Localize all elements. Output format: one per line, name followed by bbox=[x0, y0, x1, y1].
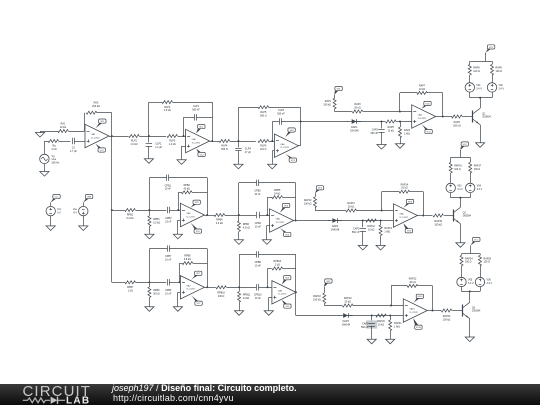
wire bbox=[470, 157, 472, 162]
svg-text:1.1 µF: 1.1 µF bbox=[155, 146, 162, 149]
wire load bottom rail bbox=[470, 97, 492, 99]
net flag VEE on supply bbox=[83, 195, 93, 203]
wire bbox=[239, 183, 257, 216]
svg-text:560 Ω: 560 Ω bbox=[260, 114, 267, 117]
svg-text:2 kΩ: 2 kΩ bbox=[52, 148, 57, 151]
svg-text:1N4148: 1N4148 bbox=[342, 323, 351, 326]
wire bbox=[83, 203, 85, 207]
wire bbox=[461, 266, 463, 277]
svg-text:100 Ω: 100 Ω bbox=[496, 70, 503, 73]
svg-text:1N4148: 1N4148 bbox=[331, 228, 340, 231]
capacitor C2 bbox=[70, 138, 77, 153]
net flag VC9 on OA9 bbox=[282, 300, 291, 308]
wire OA3 output bbox=[298, 145, 300, 147]
wire bbox=[193, 263, 208, 265]
svg-text:100 kΩ: 100 kΩ bbox=[313, 298, 321, 301]
wire OA1 output bbox=[109, 136, 128, 138]
svg-text:430 Ω: 430 Ω bbox=[218, 295, 225, 298]
net flag VD2 on OA2 bbox=[196, 125, 205, 134]
wire bbox=[239, 254, 257, 287]
wire bbox=[268, 269, 272, 288]
resistor RAP19 bbox=[342, 297, 353, 307]
wire load bottom rail bbox=[462, 291, 481, 293]
ground bbox=[40, 170, 49, 176]
svg-text:10 nF: 10 nF bbox=[165, 293, 172, 296]
net flag VD3 threshold row2 bbox=[315, 186, 324, 194]
wire OA3 + to ground bbox=[272, 151, 274, 163]
capacitor CPB4 bbox=[255, 212, 262, 229]
ground bbox=[456, 241, 465, 247]
svg-text:20 kΩ: 20 kΩ bbox=[354, 106, 361, 109]
svg-text:3.4 V: 3.4 V bbox=[476, 87, 482, 90]
svg-text:24 kΩ: 24 kΩ bbox=[274, 193, 281, 196]
ground bbox=[395, 142, 404, 148]
wire OA7 + to ground bbox=[178, 292, 181, 305]
ground bbox=[465, 336, 474, 342]
capacitor CPB10 bbox=[254, 284, 262, 300]
resistor RA2 bbox=[86, 102, 100, 115]
node bbox=[266, 214, 268, 216]
wire load top rail bbox=[470, 61, 492, 63]
svg-text:1 MΩ: 1 MΩ bbox=[394, 325, 400, 328]
svg-text:560 nF: 560 nF bbox=[192, 108, 200, 111]
op-amp OA9 bbox=[272, 281, 296, 304]
node bbox=[390, 305, 392, 307]
svg-text:2N3904: 2N3904 bbox=[472, 310, 481, 313]
node bbox=[459, 197, 461, 199]
wire bbox=[136, 282, 167, 284]
resistor RAP22 bbox=[407, 278, 418, 288]
voltage source Vcc 9V bbox=[46, 206, 62, 215]
svg-text:3.4 V: 3.4 V bbox=[487, 282, 493, 285]
resistor RAP3 bbox=[352, 103, 363, 113]
wire bbox=[97, 113, 112, 137]
capacitor CLP2 bbox=[146, 143, 163, 149]
wire bbox=[296, 315, 340, 317]
capacitor CPB7 bbox=[165, 245, 172, 261]
node bbox=[432, 310, 434, 312]
footer text line 1 bbox=[112, 383, 297, 393]
resistor RAP4 bbox=[399, 127, 411, 138]
wire bbox=[68, 131, 84, 133]
net flag VD1 on OA1 bbox=[96, 119, 107, 129]
wire bbox=[259, 183, 296, 221]
wire bbox=[259, 215, 270, 217]
wire bbox=[461, 254, 463, 256]
ground bbox=[177, 158, 186, 164]
op-amp OA7 bbox=[180, 276, 204, 299]
wire bbox=[239, 287, 241, 291]
wire bbox=[112, 282, 125, 284]
net flag VD6 on OA6 bbox=[280, 203, 290, 212]
svg-text:6.8 kΩ: 6.8 kΩ bbox=[184, 258, 191, 261]
op-amp OA5 bbox=[180, 203, 204, 226]
op-amp OA6 bbox=[270, 209, 294, 232]
ground bbox=[35, 131, 44, 137]
wire OA9 output bbox=[295, 292, 297, 315]
resistor RPB1 bbox=[125, 209, 135, 221]
node bbox=[295, 220, 297, 222]
net flag VD5 on OA5 bbox=[191, 200, 201, 208]
resistor RAP21 bbox=[389, 320, 403, 331]
node bbox=[422, 215, 424, 217]
wire bbox=[363, 111, 412, 113]
svg-text:TL-C2372: TL-C2372 bbox=[186, 289, 194, 291]
wire bbox=[470, 173, 472, 183]
node bbox=[267, 286, 269, 288]
wire OA6 output bbox=[294, 220, 330, 222]
wire bbox=[149, 210, 151, 216]
wire bbox=[470, 245, 472, 253]
svg-text:30 kΩ: 30 kΩ bbox=[153, 292, 160, 295]
wire bbox=[149, 249, 167, 283]
ground bbox=[79, 224, 88, 230]
wire bbox=[380, 221, 382, 226]
wire bbox=[44, 141, 48, 154]
wire bbox=[461, 287, 463, 291]
resistor RPB2 bbox=[181, 184, 192, 194]
resistor RLP2 bbox=[162, 101, 173, 113]
node bbox=[238, 214, 240, 216]
resistor RAP20 bbox=[376, 314, 386, 326]
wire Q3 collector bbox=[469, 291, 471, 302]
svg-text:TL-C2372: TL-C2372 bbox=[418, 118, 426, 120]
node bbox=[211, 140, 213, 142]
svg-text:TL-C2372: TL-C2372 bbox=[91, 137, 99, 139]
svg-text:6.2 kΩ: 6.2 kΩ bbox=[153, 221, 160, 224]
wire bbox=[480, 254, 482, 256]
svg-text:100 Ω: 100 Ω bbox=[473, 70, 480, 73]
svg-text:OA10: OA10 bbox=[409, 308, 415, 311]
wire bbox=[169, 282, 180, 284]
svg-text:VCC: VCC bbox=[54, 197, 59, 199]
resistor RAP15 bbox=[433, 214, 444, 226]
wire bbox=[40, 131, 58, 133]
svg-text:TL-C2372: TL-C2372 bbox=[409, 312, 417, 314]
capacitor CPB2 bbox=[165, 207, 172, 224]
resistor RPB4 bbox=[214, 214, 225, 226]
svg-text:1 MΩ: 1 MΩ bbox=[404, 132, 410, 135]
wire bbox=[272, 122, 279, 142]
svg-text:13 kΩ: 13 kΩ bbox=[243, 297, 250, 300]
node bbox=[148, 281, 150, 283]
net flag VC8 on OA8 bbox=[403, 223, 412, 233]
wire bbox=[357, 121, 386, 123]
svg-text:4.3 kΩ: 4.3 kΩ bbox=[243, 226, 250, 229]
wire bbox=[462, 116, 473, 118]
resistor Rg bbox=[48, 140, 59, 151]
wire bbox=[337, 220, 393, 222]
wire bbox=[169, 249, 207, 288]
node bbox=[179, 281, 181, 283]
resistor RPB5 bbox=[272, 189, 283, 199]
wire bbox=[492, 92, 494, 97]
node bbox=[238, 286, 240, 288]
wire bbox=[315, 208, 346, 211]
diode DAP3 bbox=[339, 313, 353, 326]
wire bbox=[470, 193, 472, 198]
svg-text:VCC: VCC bbox=[463, 144, 468, 146]
net flag VD10 on OA10 bbox=[413, 294, 423, 303]
svg-text:10 kΩ: 10 kΩ bbox=[409, 281, 416, 284]
ground bbox=[262, 238, 271, 244]
svg-text:4.7 µF: 4.7 µF bbox=[70, 150, 77, 153]
wire bbox=[315, 193, 317, 197]
wire bbox=[371, 326, 373, 338]
wire bbox=[135, 210, 166, 212]
wire bbox=[149, 178, 166, 211]
net flag VCC row2 load bbox=[460, 142, 468, 151]
wire bbox=[238, 141, 240, 147]
wire bbox=[400, 93, 418, 112]
wire OA2 + to ground bbox=[182, 146, 186, 158]
resistor RPB9 bbox=[148, 287, 160, 298]
wire Q2 collector bbox=[460, 198, 462, 208]
resistor RLP5 bbox=[258, 106, 269, 118]
svg-text:10 nF: 10 nF bbox=[255, 264, 262, 267]
svg-text:1N4148: 1N4148 bbox=[350, 129, 359, 132]
ground bbox=[144, 157, 153, 163]
resistor RPB3 bbox=[148, 216, 160, 227]
diode DAP1 bbox=[347, 119, 361, 132]
node bbox=[111, 135, 113, 137]
resistor RPB8 bbox=[182, 255, 193, 265]
wire bbox=[334, 95, 336, 99]
node bbox=[381, 210, 383, 212]
wire bbox=[469, 75, 471, 82]
net flag VD5 threshold row3 bbox=[324, 279, 332, 288]
svg-text:100 kΩ: 100 kΩ bbox=[453, 124, 461, 127]
capacitor CAP3 (highlighted) bbox=[361, 320, 377, 329]
net flag VC6 on OA6 bbox=[280, 228, 291, 237]
net flag VC5 on OA5 bbox=[191, 223, 202, 233]
wire bbox=[348, 315, 403, 317]
wire bbox=[230, 141, 256, 143]
wire bbox=[353, 305, 403, 307]
resistor RAP25 bbox=[479, 255, 492, 266]
wire bbox=[410, 192, 424, 216]
resistor RLP3 bbox=[167, 135, 178, 147]
ground bbox=[264, 309, 273, 315]
node bbox=[371, 315, 373, 317]
svg-text:6.2 kΩ: 6.2 kΩ bbox=[127, 217, 134, 220]
svg-text:10 kΩ: 10 kΩ bbox=[401, 187, 408, 190]
svg-text:TL-C2372: TL-C2372 bbox=[280, 147, 288, 149]
wire OA5 output bbox=[204, 215, 214, 217]
svg-text:TL-C2372: TL-C2372 bbox=[278, 294, 286, 296]
svg-text:10 kΩ: 10 kΩ bbox=[388, 129, 395, 132]
svg-text:10 nF: 10 nF bbox=[255, 297, 262, 300]
svg-text:560 Ω: 560 Ω bbox=[221, 148, 228, 151]
net flag VC10 on OA10 bbox=[413, 318, 422, 329]
wire bbox=[149, 102, 163, 136]
node bbox=[148, 135, 150, 137]
wire bbox=[450, 173, 452, 183]
wire bbox=[356, 210, 393, 212]
wire load bottom rail bbox=[451, 197, 471, 199]
wire OA8 output bbox=[417, 215, 432, 217]
wire bbox=[450, 157, 452, 162]
wire bbox=[74, 141, 85, 143]
ground bbox=[46, 224, 55, 230]
op-amp OA3 bbox=[274, 134, 298, 157]
wire bbox=[390, 316, 392, 321]
node bbox=[380, 220, 382, 222]
svg-text:3.6 kΩ: 3.6 kΩ bbox=[216, 222, 223, 225]
wire bbox=[391, 286, 408, 306]
capacitor CLP1 bbox=[192, 105, 200, 121]
ground bbox=[376, 244, 385, 250]
footer text line 2 bbox=[113, 393, 234, 403]
node bbox=[206, 286, 208, 288]
wire OA5 + to ground bbox=[178, 220, 181, 233]
wire Q2 emitter bbox=[460, 224, 462, 242]
svg-text:560 nF: 560 nF bbox=[352, 231, 360, 234]
wire bbox=[480, 287, 482, 291]
wire Q1 collector bbox=[480, 98, 482, 109]
node bbox=[148, 209, 150, 211]
net flag VC7 on OA7 bbox=[191, 295, 203, 305]
op-amp OA8 bbox=[393, 204, 417, 227]
node bbox=[300, 121, 302, 123]
capacitor CPB8 bbox=[255, 251, 262, 267]
wire bbox=[173, 102, 213, 141]
ground bbox=[268, 163, 277, 169]
svg-text:TL-C2372: TL-C2372 bbox=[276, 222, 284, 224]
ground bbox=[145, 305, 154, 311]
ground bbox=[386, 338, 395, 344]
svg-text:10 nF: 10 nF bbox=[165, 220, 172, 223]
resistor RPB6 bbox=[237, 221, 249, 232]
wire bbox=[450, 193, 452, 198]
net flag VCC row3 load bbox=[471, 237, 481, 245]
resistor RAP9 bbox=[491, 65, 503, 76]
net flag VC2 on OA2 bbox=[196, 149, 205, 157]
wire bbox=[83, 216, 85, 224]
node bbox=[442, 116, 444, 118]
voltage source V01 bbox=[465, 83, 482, 92]
wire bbox=[380, 236, 382, 244]
svg-text:100 kΩ: 100 kΩ bbox=[443, 318, 451, 321]
svg-text:10 kΩ: 10 kΩ bbox=[378, 323, 385, 326]
resistor RAP17 bbox=[469, 162, 482, 173]
node bbox=[479, 97, 481, 99]
wire bbox=[149, 226, 151, 232]
wire bbox=[169, 178, 208, 216]
resistor RAP12 bbox=[366, 219, 377, 231]
resistor RAP1 bbox=[323, 98, 336, 109]
svg-text:10 nF: 10 nF bbox=[254, 193, 261, 196]
wire load top rail bbox=[451, 157, 471, 159]
wire bbox=[149, 282, 151, 287]
svg-text:LAB: LAB bbox=[66, 396, 90, 405]
node bbox=[183, 135, 185, 137]
wire OA10 output bbox=[427, 310, 441, 312]
wire bbox=[197, 117, 213, 119]
wire bbox=[469, 92, 471, 97]
wire bbox=[259, 254, 296, 292]
footer bar bbox=[0, 384, 540, 405]
wire OA7 output bbox=[204, 287, 215, 289]
resistor RLP4 bbox=[219, 140, 230, 152]
wire bbox=[492, 75, 494, 82]
svg-text:100 Ω: 100 Ω bbox=[454, 168, 461, 171]
svg-text:10 nF: 10 nF bbox=[165, 188, 172, 191]
resistor RAP11 bbox=[346, 202, 357, 212]
net flag VD9 on OA9 bbox=[282, 276, 291, 285]
wire Q3 emitter bbox=[469, 319, 471, 336]
svg-text:100 kΩ: 100 kΩ bbox=[304, 202, 312, 205]
transistor Q3 bbox=[463, 302, 482, 318]
net flag VD1 threshold row1 bbox=[334, 87, 342, 95]
wire bbox=[50, 216, 52, 224]
ground bbox=[145, 233, 154, 239]
wire bbox=[324, 304, 342, 306]
svg-text:100 kΩ: 100 kΩ bbox=[434, 223, 442, 226]
node bbox=[381, 121, 383, 123]
voltage source V03 bbox=[446, 183, 463, 192]
ground bbox=[358, 244, 367, 250]
svg-text:10 kΩ: 10 kΩ bbox=[419, 88, 426, 91]
svg-text:10 kΩ: 10 kΩ bbox=[60, 126, 67, 129]
wire bbox=[485, 53, 487, 62]
ground bbox=[476, 141, 485, 147]
ground bbox=[377, 143, 386, 149]
svg-text:VC10: VC10 bbox=[416, 327, 422, 329]
wire bbox=[180, 263, 182, 282]
svg-text:10 nF: 10 nF bbox=[165, 259, 172, 262]
svg-text:9 V: 9 V bbox=[73, 211, 77, 214]
net flag VCC on supply bbox=[51, 195, 61, 203]
transistor Q2 bbox=[453, 207, 472, 223]
capacitor CPB3 bbox=[254, 180, 261, 196]
wire bbox=[227, 287, 256, 289]
svg-text:3.4 V: 3.4 V bbox=[499, 87, 505, 90]
wire bbox=[390, 331, 392, 338]
wire Vg to ground bbox=[44, 164, 46, 170]
wire bbox=[400, 122, 402, 128]
wire bbox=[239, 302, 241, 309]
wire bbox=[480, 266, 482, 277]
wire bbox=[301, 121, 348, 123]
svg-text:3.4 V: 3.4 V bbox=[477, 188, 483, 191]
resistor RPB12 bbox=[272, 260, 283, 270]
wire bbox=[178, 136, 186, 138]
svg-text:110 Ω: 110 Ω bbox=[260, 148, 266, 151]
wire bbox=[381, 122, 383, 129]
node bbox=[362, 220, 364, 222]
wire bbox=[469, 61, 471, 64]
svg-text:2N3904: 2N3904 bbox=[463, 215, 472, 218]
node bbox=[389, 315, 391, 317]
node bbox=[399, 111, 401, 113]
node bbox=[206, 214, 208, 216]
transistor Q1 bbox=[473, 108, 492, 124]
resistor RA1 bbox=[58, 122, 68, 132]
ground bbox=[234, 238, 243, 244]
resistor RAP6 bbox=[452, 115, 463, 127]
node bbox=[271, 140, 273, 142]
svg-text:200 kΩ: 200 kΩ bbox=[92, 105, 100, 108]
wire OA9 + to ground bbox=[269, 297, 272, 309]
wire bbox=[178, 192, 181, 210]
svg-text:20 kΩ: 20 kΩ bbox=[345, 301, 352, 304]
ground bbox=[173, 305, 182, 311]
diode DAP2 bbox=[328, 218, 342, 231]
op-amp OA10 bbox=[403, 299, 427, 322]
voltage source V05 bbox=[457, 277, 474, 286]
node bbox=[177, 209, 179, 211]
